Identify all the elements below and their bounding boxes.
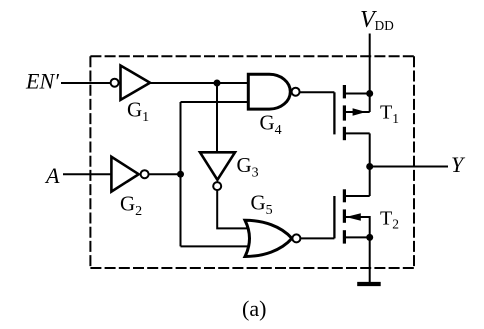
wire vertical bus from node A-bar xyxy=(180,102,182,246)
wire T2 source to ground xyxy=(369,237,371,284)
wire T2 drain up to Y node xyxy=(369,167,371,197)
wire to G5 input B xyxy=(181,245,253,247)
svg-text:G3: G3 xyxy=(237,153,259,180)
junction node EN-buffered xyxy=(214,80,221,87)
wire G2 output to node xyxy=(148,173,180,175)
wire G4 output to T1 gate xyxy=(299,91,334,93)
svg-text:G1: G1 xyxy=(127,98,149,125)
svg-text:G4: G4 xyxy=(260,111,282,138)
svg-text:A: A xyxy=(44,163,60,188)
wire G5 output to T2 gate xyxy=(300,237,334,239)
wire T1 source down to Y node xyxy=(369,133,371,166)
wire to G4 input B xyxy=(181,101,250,103)
NOR gate G5 xyxy=(245,220,300,256)
wire A input xyxy=(63,173,112,175)
svg-text:G5: G5 xyxy=(251,191,273,218)
junction node T2 source xyxy=(366,234,373,241)
ground xyxy=(357,282,381,286)
svg-text:T2: T2 xyxy=(380,207,399,231)
inverter G2 xyxy=(111,157,148,192)
wire G1 output to G4 input A xyxy=(150,82,250,84)
NAND gate G4 xyxy=(248,74,299,109)
svg-text:(a): (a) xyxy=(242,296,266,321)
svg-text:VDD: VDD xyxy=(360,7,394,33)
wire EN' input xyxy=(61,82,111,84)
inverter G1 xyxy=(111,66,150,100)
junction node A-bar xyxy=(177,171,184,178)
junction node VDD-drain xyxy=(366,90,373,97)
transistor T2 (NMOS) xyxy=(334,189,369,243)
transistor T1 (PMOS) xyxy=(334,85,369,140)
wire VDD rail xyxy=(369,34,371,113)
dashed enclosure border xyxy=(90,56,414,268)
svg-text:G2: G2 xyxy=(120,192,142,219)
svg-text:EN′: EN′ xyxy=(25,69,60,94)
wire G3 output to G5 input A xyxy=(217,190,252,229)
inverter G3 xyxy=(200,152,235,190)
svg-text:Y: Y xyxy=(451,152,466,177)
wire node EN to G3 input xyxy=(216,83,218,153)
junction node Y xyxy=(366,163,373,170)
svg-text:T1: T1 xyxy=(380,102,399,126)
wire Y output xyxy=(370,166,448,168)
